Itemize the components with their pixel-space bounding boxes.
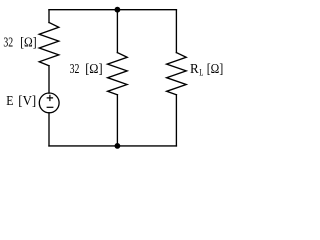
svg-text:[Ω]: [Ω] bbox=[20, 35, 36, 50]
wire: bottom rail left segment bbox=[49, 145, 117, 147]
wire: top rail to RL bbox=[175, 10, 177, 53]
node B junction dot (bottom) bbox=[115, 143, 121, 149]
wire: source E to bottom rail bbox=[48, 113, 50, 146]
svg-text:[V]: [V] bbox=[18, 94, 36, 109]
wire: R1 to voltage source E bbox=[48, 66, 50, 93]
value label 32 [ohm] for R1 bbox=[3, 35, 36, 50]
svg-text:[Ω]: [Ω] bbox=[207, 62, 223, 77]
wire: R2 to bottom node B bbox=[116, 95, 118, 146]
voltage source E (circle) bbox=[39, 93, 59, 113]
node A junction dot (top) bbox=[115, 7, 121, 13]
wire: top rail left segment (node A to left corner) bbox=[49, 9, 117, 11]
wire: bottom rail right segment bbox=[117, 145, 176, 147]
svg-text:32: 32 bbox=[3, 35, 13, 50]
source label E [V] bbox=[6, 94, 36, 109]
value label 32 [ohm] for R2 bbox=[70, 62, 103, 77]
svg-text:[Ω]: [Ω] bbox=[85, 62, 102, 77]
svg-text:32: 32 bbox=[70, 62, 80, 77]
svg-text:R: R bbox=[190, 62, 199, 77]
wire: top node A to R2 bbox=[116, 10, 118, 53]
resistor R2 32 ohm (middle branch) bbox=[108, 53, 128, 95]
resistor R1 32 ohm (left branch) bbox=[39, 23, 59, 66]
resistor RL (load, right branch) bbox=[167, 53, 187, 95]
wire: RL to bottom rail bbox=[175, 95, 177, 146]
wire: left branch top vertical (R1 to top rail) bbox=[48, 10, 50, 23]
plus terminal mark of source E bbox=[47, 95, 52, 100]
wire: top rail right segment (node A to right corner) bbox=[117, 9, 176, 11]
label R_L [ohm] for load resistor bbox=[190, 62, 223, 77]
svg-text:E: E bbox=[6, 94, 13, 109]
svg-text:L: L bbox=[199, 67, 203, 77]
minus terminal mark of source E bbox=[47, 106, 53, 108]
